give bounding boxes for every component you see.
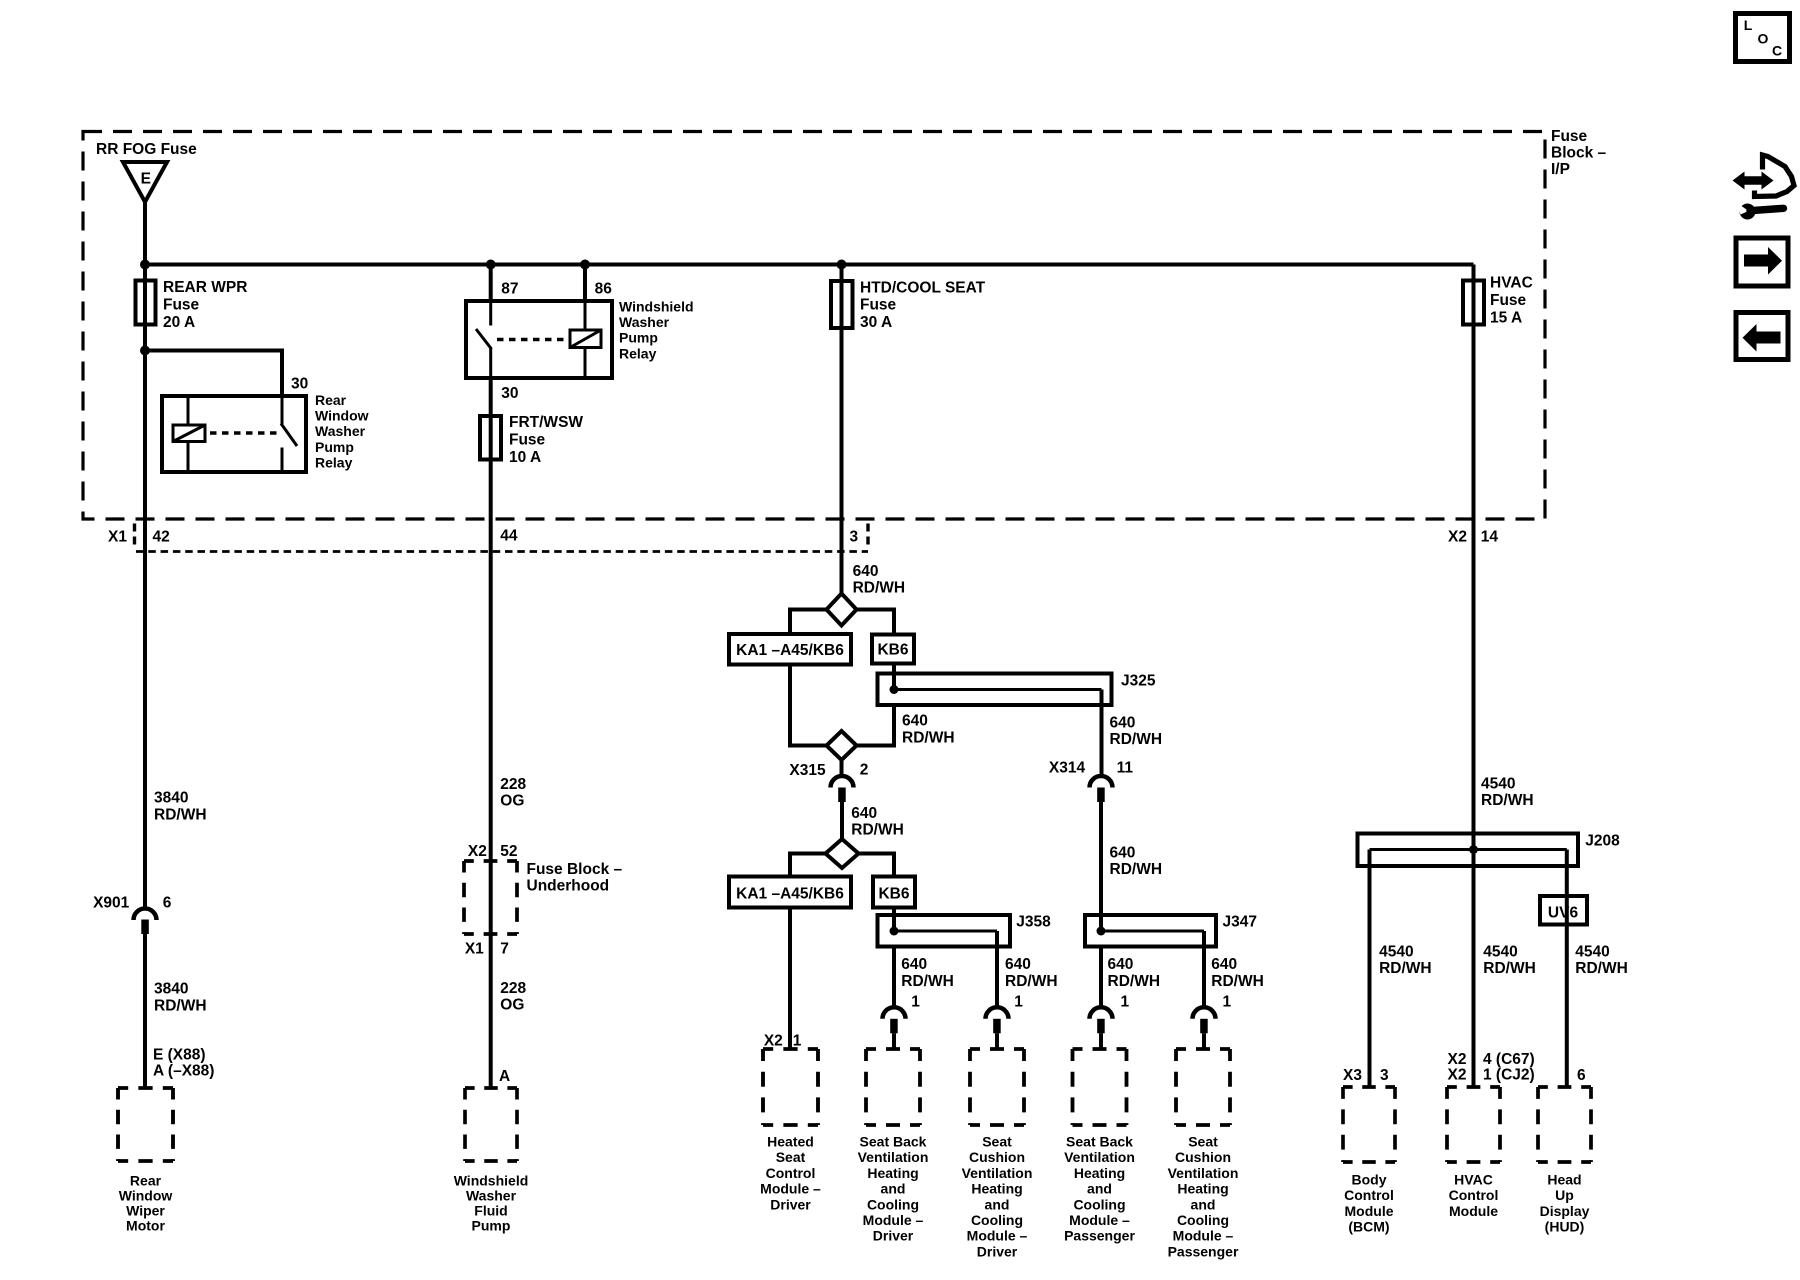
svg-text:and: and: [1087, 1181, 1112, 1197]
svg-text:J358: J358: [1016, 913, 1051, 930]
splice pack J347 bus bar: [1101, 930, 1204, 933]
svg-text:RD/WH: RD/WH: [154, 998, 207, 1015]
module Seat Cushion Ventilation Driver box: [970, 1049, 1024, 1125]
svg-text:4540: 4540: [1481, 776, 1515, 793]
splice pack J325 box: [878, 674, 1112, 706]
svg-text:3840: 3840: [154, 980, 188, 997]
junction bus pin 87 feed: [486, 260, 496, 270]
svg-text:RR FOG Fuse: RR FOG Fuse: [96, 141, 197, 158]
svg-text:RD/WH: RD/WH: [1005, 973, 1058, 990]
relay K Windshield Washer Pump Relay box: [466, 301, 612, 378]
wire HVAC fuse feed down to HVAC control module: [1472, 265, 1476, 1088]
svg-text:Windshield: Windshield: [454, 1172, 529, 1188]
splice diamond S3: [826, 839, 859, 868]
svg-text:and: and: [1191, 1196, 1216, 1212]
svg-text:Up: Up: [1555, 1187, 1574, 1203]
junction J347 bar: [1097, 927, 1106, 936]
wire label 4540 RD/WH HVAC leg: [1483, 943, 1536, 977]
splice diamond S1: [827, 594, 857, 626]
connector X315 symbol: [831, 776, 854, 802]
svg-text:Control: Control: [766, 1165, 816, 1181]
svg-text:X2: X2: [1448, 1067, 1467, 1084]
wire to seat cushion module driver: [995, 1033, 999, 1049]
svg-text:E: E: [141, 171, 151, 188]
bus wire: [143, 263, 1474, 267]
label Seat Back Ventilation Heating and Cooling Module - Passenger: [1064, 1134, 1135, 1244]
svg-text:X3: X3: [1343, 1067, 1362, 1084]
fuse HVAC 15A: [1463, 281, 1484, 325]
svg-text:(BCM): (BCM): [1348, 1219, 1389, 1235]
connector symbol seat back passenger: [1090, 1007, 1113, 1033]
wire J325 down to splice S2: [857, 705, 895, 746]
module Heated Seat Control Module box: [763, 1049, 818, 1125]
label Body Control Module (BCM): [1344, 1172, 1394, 1235]
wire S1 to KB6 branch: [857, 610, 895, 636]
wire J325 branch down to X314: [1100, 690, 1104, 777]
svg-text:Control: Control: [1449, 1187, 1499, 1203]
svg-text:640: 640: [851, 805, 877, 822]
svg-text:Window: Window: [315, 408, 369, 424]
svg-text:RD/WH: RD/WH: [901, 973, 954, 990]
svg-text:640: 640: [1110, 715, 1136, 732]
option box KB6 upper: [872, 635, 914, 664]
label Seat Cushion Ventilation Heating and Cooling Module - Passenger: [1168, 1134, 1239, 1260]
svg-text:RD/WH: RD/WH: [1483, 960, 1536, 977]
connector symbol seat cushion driver: [986, 1007, 1009, 1033]
wire J358 left leg down: [892, 947, 896, 1008]
fuse block underhood dashed box: [464, 861, 517, 934]
wire label 4540 RD/WH above J208: [1481, 776, 1534, 810]
wire label 640 RD/WH above splice S1: [853, 563, 906, 597]
svg-text:X2: X2: [1448, 529, 1467, 546]
svg-text:Ventilation: Ventilation: [962, 1165, 1033, 1181]
svg-text:Seat: Seat: [776, 1149, 806, 1165]
svg-text:640: 640: [1110, 844, 1136, 861]
svg-text:Driver: Driver: [770, 1196, 811, 1212]
svg-text:Window: Window: [119, 1187, 173, 1203]
svg-text:640: 640: [901, 956, 927, 973]
svg-text:Heating: Heating: [867, 1165, 918, 1181]
wire S3 to KB6 lower: [859, 854, 895, 877]
svg-text:30 A: 30 A: [860, 314, 892, 331]
connector symbol seat back driver: [883, 1007, 906, 1033]
svg-text:RD/WH: RD/WH: [1575, 960, 1628, 977]
module Seat Cushion Ventilation Passenger box: [1176, 1049, 1230, 1125]
svg-text:OG: OG: [500, 997, 524, 1014]
module Windshield Washer Fluid Pump box: [465, 1088, 517, 1161]
svg-text:RD/WH: RD/WH: [1110, 731, 1163, 748]
svg-text:HTD/COOL SEAT: HTD/COOL SEAT: [860, 279, 986, 296]
wire label 640 RD/WH below X314: [1110, 844, 1163, 878]
svg-text:Driver: Driver: [977, 1243, 1018, 1259]
splice pack J208 box: [1358, 834, 1579, 867]
svg-text:REAR WPR: REAR WPR: [163, 279, 247, 296]
svg-text:Ventilation: Ventilation: [858, 1149, 929, 1165]
svg-text:Module –: Module –: [863, 1212, 924, 1228]
svg-text:Wiper: Wiper: [126, 1202, 165, 1218]
svg-text:KA1 –A45/KB6: KA1 –A45/KB6: [736, 642, 844, 659]
label Rear Window Washer Pump Relay: [315, 392, 369, 470]
svg-text:52: 52: [500, 843, 517, 860]
svg-text:228: 228: [500, 980, 526, 997]
relay actuator dashed link rear washer: [210, 431, 277, 435]
svg-text:4540: 4540: [1575, 943, 1609, 960]
svg-text:(HUD): (HUD): [1545, 1219, 1585, 1235]
option box UV6: [1540, 896, 1587, 925]
svg-text:7: 7: [500, 941, 509, 958]
svg-text:X314: X314: [1049, 760, 1086, 777]
svg-text:Pump: Pump: [472, 1217, 511, 1233]
relay actuator dashed link windshield washer: [497, 338, 568, 342]
svg-text:Cooling: Cooling: [1177, 1212, 1229, 1228]
wire label 640 RD/WH right J325 branch: [1110, 715, 1163, 749]
svg-text:Seat Back: Seat Back: [860, 1134, 927, 1150]
connector X901 symbol: [134, 909, 157, 935]
svg-text:Heating: Heating: [971, 1181, 1022, 1197]
svg-text:Ventilation: Ventilation: [1064, 1149, 1135, 1165]
svg-text:Cooling: Cooling: [867, 1196, 919, 1212]
wire KB6 to splice pack J325: [892, 664, 896, 690]
label HVAC Control Module: [1449, 1172, 1499, 1219]
label connector X2 pin 4 C67 HVAC: [1448, 1051, 1535, 1068]
wire J358 right leg down: [995, 931, 999, 1007]
svg-text:30: 30: [501, 385, 518, 402]
icon LOC box: [1736, 14, 1790, 62]
svg-text:I/P: I/P: [1551, 161, 1570, 178]
svg-text:Seat Back: Seat Back: [1066, 1134, 1133, 1150]
module Body Control Module box: [1343, 1087, 1395, 1162]
svg-text:C: C: [1772, 43, 1782, 59]
connector X1 separator tick right: [866, 524, 869, 548]
svg-text:640: 640: [853, 563, 879, 580]
svg-text:1: 1: [1121, 993, 1130, 1010]
svg-text:3: 3: [850, 529, 859, 546]
svg-text:87: 87: [501, 281, 518, 298]
svg-text:86: 86: [595, 281, 613, 298]
wire label 228 OG lower: [500, 980, 526, 1014]
svg-text:FRT/WSW: FRT/WSW: [509, 414, 583, 431]
junction J208 bar: [1469, 845, 1478, 854]
wire to rear wiper motor: [143, 934, 147, 1088]
svg-text:Cushion: Cushion: [969, 1149, 1025, 1165]
svg-text:RD/WH: RD/WH: [1110, 861, 1163, 878]
svg-text:RD/WH: RD/WH: [1211, 973, 1264, 990]
svg-text:640: 640: [902, 713, 928, 730]
relay switch windshield washer: [476, 301, 492, 378]
svg-text:6: 6: [163, 895, 172, 912]
svg-text:Heating: Heating: [1074, 1165, 1125, 1181]
svg-text:Driver: Driver: [873, 1228, 914, 1244]
svg-text:Washer: Washer: [466, 1187, 517, 1203]
label REAR WPR Fuse 20 A: [163, 279, 247, 331]
svg-text:Fuse: Fuse: [509, 431, 546, 448]
junction bus HTD fuse feed: [837, 260, 847, 270]
svg-text:Washer: Washer: [619, 314, 670, 330]
option box KA1 -A45/KB6 upper: [729, 634, 851, 665]
splice pack J208 bus bar: [1370, 848, 1567, 851]
svg-text:RD/WH: RD/WH: [1108, 973, 1161, 990]
svg-text:30: 30: [291, 376, 308, 393]
svg-text:Control: Control: [1344, 1187, 1394, 1203]
wire S3 to KA1 lower: [790, 854, 826, 877]
svg-text:Seat: Seat: [982, 1134, 1012, 1150]
svg-text:RD/WH: RD/WH: [902, 729, 955, 746]
connector X1 separator tick left: [133, 524, 136, 548]
svg-text:Module –: Module –: [967, 1228, 1028, 1244]
svg-text:14: 14: [1481, 529, 1499, 546]
svg-text:Cooling: Cooling: [971, 1212, 1023, 1228]
svg-text:Fuse Block –: Fuse Block –: [527, 861, 623, 878]
icon component view (double arrow, arrow outline and wrench): [1733, 155, 1795, 220]
splice pack J347 box: [1085, 915, 1216, 947]
wire bus to relay pin 87: [489, 265, 493, 302]
svg-text:1: 1: [911, 993, 920, 1010]
svg-text:HVAC: HVAC: [1490, 275, 1533, 292]
connector X314 symbol: [1090, 776, 1113, 802]
module Seat Back Ventilation Passenger box: [1073, 1049, 1127, 1125]
svg-text:3840: 3840: [154, 790, 188, 807]
svg-text:RD/WH: RD/WH: [1481, 792, 1534, 809]
svg-text:Cooling: Cooling: [1073, 1196, 1125, 1212]
svg-text:Passenger: Passenger: [1168, 1243, 1239, 1259]
option box KA1 -A45/KB6 lower: [729, 877, 851, 908]
svg-text:640: 640: [1108, 956, 1134, 973]
svg-text:Module –: Module –: [1173, 1228, 1234, 1244]
splice diamond S2: [827, 731, 857, 760]
svg-text:Heated: Heated: [767, 1134, 814, 1150]
svg-text:Rear: Rear: [315, 392, 347, 408]
label HVAC Fuse 15 A: [1490, 275, 1533, 327]
svg-text:X901: X901: [93, 895, 130, 912]
fuse REAR WPR 20A: [136, 281, 156, 325]
junction bus and RR FOG feed: [140, 260, 150, 270]
svg-text:L: L: [1744, 17, 1753, 33]
svg-text:J347: J347: [1223, 913, 1257, 930]
module Head Up Display box: [1538, 1087, 1591, 1162]
power feed triangle E: [123, 162, 167, 202]
svg-text:Ventilation: Ventilation: [1168, 1165, 1239, 1181]
svg-text:X1: X1: [108, 529, 127, 546]
junction relay branch: [140, 346, 150, 356]
icon forward arrow box: [1736, 238, 1788, 286]
wire bus to relay pin 86: [583, 265, 587, 302]
wire pin 30 down to washer pump: [489, 378, 493, 1088]
svg-text:A: A: [499, 1068, 510, 1085]
wire E feed down: [143, 202, 147, 280]
svg-text:20 A: 20 A: [163, 314, 195, 331]
wire to seat back module driver: [892, 1033, 896, 1049]
svg-text:4540: 4540: [1483, 943, 1517, 960]
label FRT/WSW Fuse 10 A: [509, 414, 583, 466]
wire KB6 lower into J358: [892, 908, 896, 932]
svg-text:Washer: Washer: [315, 423, 366, 439]
svg-text:Fuse: Fuse: [1551, 128, 1588, 145]
svg-text:10 A: 10 A: [509, 449, 541, 466]
svg-text:Heating: Heating: [1177, 1181, 1228, 1197]
svg-text:Module: Module: [1345, 1203, 1394, 1219]
wire J208 to UV6 and HUD: [1565, 850, 1569, 1088]
wire KA1 lower to heated seat module: [788, 908, 792, 1050]
label Windshield Washer Fluid Pump: [454, 1172, 529, 1233]
svg-text:Passenger: Passenger: [1064, 1228, 1135, 1244]
wire label 640 RD/WH left of J325 exit: [902, 713, 955, 747]
svg-text:X2: X2: [764, 1033, 783, 1050]
junction J325 bar: [890, 685, 899, 694]
label Seat Cushion Ventilation Heating and Cooling Module - Driver: [962, 1134, 1033, 1260]
svg-text:Seat: Seat: [1188, 1134, 1218, 1150]
wire J347 right leg down: [1202, 931, 1206, 1007]
svg-text:E (X88): E (X88): [153, 1046, 206, 1063]
wire bus to HTD fuse and splice S1: [840, 265, 844, 595]
svg-text:Windshield: Windshield: [619, 299, 694, 315]
junction J358 bar: [890, 927, 899, 936]
svg-text:Underhood: Underhood: [527, 878, 610, 895]
svg-text:HVAC: HVAC: [1454, 1172, 1493, 1188]
wire to rear washer relay pin 30: [145, 351, 282, 397]
wire label 640 RD/WH below X315: [851, 805, 904, 839]
fuse block I/P dashed outline: [83, 132, 1545, 520]
wire label 640 RD/WH J358 right: [1005, 956, 1058, 990]
svg-text:Pump: Pump: [315, 439, 354, 455]
svg-text:Body: Body: [1352, 1172, 1387, 1188]
wire to seat back module passenger: [1099, 1033, 1103, 1049]
wire label 4540 RD/WH BCM leg: [1379, 943, 1432, 977]
svg-text:42: 42: [153, 529, 170, 546]
label Head Up Display (HUD): [1540, 1172, 1590, 1235]
wire label 4540 RD/WH HUD leg: [1575, 943, 1628, 977]
svg-text:Pump: Pump: [619, 330, 658, 346]
svg-text:RD/WH: RD/WH: [1379, 960, 1432, 977]
label connector X2 pin 1 CJ2 HVAC: [1448, 1067, 1535, 1084]
label Rear Window Wiper Motor: [119, 1172, 173, 1233]
svg-text:Module –: Module –: [1069, 1212, 1130, 1228]
wire label 640 RD/WH J358 left: [901, 956, 954, 990]
svg-text:J208: J208: [1585, 833, 1620, 850]
svg-text:KB6: KB6: [877, 642, 908, 659]
svg-text:KB6: KB6: [878, 885, 909, 902]
label HTD/COOL SEAT Fuse 30 A: [860, 279, 986, 331]
svg-text:Block –: Block –: [1551, 144, 1607, 161]
svg-text:X2: X2: [1448, 1051, 1467, 1068]
svg-text:KA1 –A45/KB6: KA1 –A45/KB6: [736, 885, 844, 902]
splice pack J358 bus bar: [894, 930, 997, 933]
svg-text:Fuse: Fuse: [860, 297, 897, 314]
svg-text:1: 1: [1223, 993, 1232, 1010]
wire label 640 RD/WH J347 left: [1108, 956, 1161, 990]
svg-text:11: 11: [1117, 760, 1134, 777]
svg-text:2: 2: [860, 761, 869, 778]
svg-text:4 (C67): 4 (C67): [1483, 1051, 1535, 1068]
relay coil windshield washer: [570, 301, 601, 378]
svg-text:A (–X88): A (–X88): [153, 1063, 214, 1080]
wire X315 to splice S3: [840, 802, 844, 840]
connector symbol seat cushion passenger: [1193, 1007, 1216, 1033]
svg-text:OG: OG: [500, 792, 524, 809]
svg-text:and: and: [881, 1181, 906, 1197]
wire label 3840 RD/WH upper: [154, 790, 207, 824]
wire S2 to connector X315: [840, 760, 844, 776]
svg-text:Relay: Relay: [619, 345, 657, 361]
svg-text:Display: Display: [1540, 1203, 1590, 1219]
wire X314 into J347: [1099, 802, 1103, 931]
svg-text:228: 228: [500, 776, 526, 793]
junction bus pin 86 feed: [580, 260, 590, 270]
svg-text:4540: 4540: [1379, 943, 1413, 960]
svg-text:Head: Head: [1547, 1172, 1581, 1188]
svg-text:Fluid: Fluid: [474, 1202, 507, 1218]
wire KA1 upper down to splice S2: [790, 665, 827, 746]
svg-text:Rear: Rear: [130, 1172, 162, 1188]
module Seat Back Ventilation Driver box: [866, 1049, 920, 1125]
svg-text:X315: X315: [789, 762, 826, 779]
svg-text:Module: Module: [1449, 1203, 1498, 1219]
svg-text:Motor: Motor: [126, 1217, 165, 1233]
label Fuse Block - Underhood: [527, 861, 623, 895]
splice pack J358 box: [878, 915, 1011, 947]
svg-text:1: 1: [1014, 993, 1023, 1010]
svg-text:and: and: [985, 1196, 1010, 1212]
connector X1 boundary dashed line: [136, 550, 868, 553]
relay K Rear Window Washer Pump Relay box: [162, 396, 306, 472]
svg-text:UV6: UV6: [1548, 905, 1579, 922]
wire J208 to BCM: [1368, 850, 1372, 1088]
wire to seat cushion module passenger: [1202, 1033, 1206, 1049]
svg-text:J325: J325: [1121, 673, 1156, 690]
svg-text:44: 44: [500, 528, 518, 545]
svg-text:O: O: [1758, 31, 1769, 47]
svg-text:15 A: 15 A: [1490, 310, 1522, 327]
label pin E (X88) A (-X88): [153, 1046, 214, 1079]
svg-text:X1: X1: [465, 941, 484, 958]
relay coil rear washer: [173, 396, 205, 472]
option box KB6 lower: [873, 877, 915, 908]
label Fuse Block - I/P: [1551, 128, 1607, 178]
fuse FRT/WSW 10A: [480, 416, 501, 460]
svg-text:6: 6: [1577, 1067, 1586, 1084]
module HVAC Control Module box: [1447, 1087, 1500, 1162]
svg-text:1: 1: [793, 1033, 802, 1050]
fuse HTD/COOL SEAT 30A: [831, 281, 853, 328]
wire rear wpr branch down: [143, 280, 147, 908]
wire J347 left leg down: [1099, 947, 1103, 1008]
svg-text:Fuse: Fuse: [1490, 292, 1527, 309]
svg-text:Cushion: Cushion: [1175, 1149, 1231, 1165]
svg-text:640: 640: [1211, 956, 1237, 973]
svg-text:3: 3: [1380, 1067, 1389, 1084]
svg-text:RD/WH: RD/WH: [851, 822, 904, 839]
svg-text:Module –: Module –: [760, 1181, 821, 1197]
svg-text:640: 640: [1005, 956, 1031, 973]
wire label 3840 RD/WH lower: [154, 980, 207, 1014]
svg-text:X2: X2: [468, 843, 487, 860]
label Windshield Washer Pump Relay: [619, 299, 694, 362]
splice pack J325 bus bar: [894, 688, 1102, 691]
svg-text:RD/WH: RD/WH: [853, 579, 906, 596]
icon back arrow box: [1736, 313, 1788, 360]
wire label 640 RD/WH J347 right: [1211, 956, 1264, 990]
label Seat Back Ventilation Heating and Cooling Module - Driver: [858, 1134, 929, 1244]
svg-text:Relay: Relay: [315, 454, 353, 470]
wire S1 to KA1 branch: [790, 610, 827, 635]
wire label 228 OG upper: [500, 776, 526, 810]
svg-text:Fuse: Fuse: [163, 296, 200, 313]
svg-text:1 (CJ2): 1 (CJ2): [1483, 1067, 1535, 1084]
svg-text:RD/WH: RD/WH: [154, 806, 207, 823]
relay switch rear washer: [281, 396, 297, 472]
module Rear Window Wiper Motor box: [118, 1088, 173, 1161]
label Heated Seat Control Module - Driver: [760, 1134, 821, 1213]
